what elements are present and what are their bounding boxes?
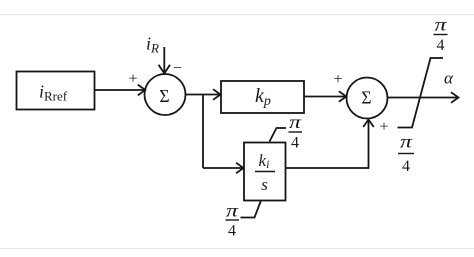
arrowhead into kp bbox=[213, 89, 221, 100]
svg-text:π: π bbox=[226, 201, 239, 221]
arrowhead into S1 bbox=[138, 85, 146, 96]
svg-text:Σ: Σ bbox=[361, 87, 371, 107]
wire kp to summer S2 bbox=[304, 96, 346, 98]
svg-text:+: + bbox=[128, 71, 137, 88]
saturation limiter bbox=[398, 58, 444, 128]
arrowhead of iR into S1 bbox=[159, 65, 170, 74]
svg-text:Σ: Σ bbox=[159, 86, 169, 106]
ki/s lower limit fraction bar bbox=[226, 219, 240, 221]
wire node A to kp bbox=[203, 94, 221, 96]
svg-text:−: − bbox=[173, 60, 182, 77]
svg-text:+: + bbox=[333, 71, 342, 88]
svg-text:4: 4 bbox=[291, 135, 299, 152]
svg-text:π: π bbox=[435, 15, 448, 35]
svg-text:4: 4 bbox=[402, 158, 410, 175]
arrowhead into S2 bbox=[339, 91, 347, 102]
input iR wire bbox=[163, 47, 165, 74]
bottom faint rule bbox=[0, 248, 474, 250]
svg-text:π: π bbox=[400, 132, 413, 152]
output wire to alpha bbox=[388, 97, 459, 99]
lower limit bar pi/4 bbox=[398, 153, 414, 155]
integrator block ki/s bbox=[244, 143, 286, 201]
arrowhead of alpha output bbox=[451, 92, 459, 103]
wire iRref to summer S1 bbox=[95, 89, 146, 91]
wire node A down bbox=[202, 95, 204, 169]
fraction bar of ki/s bbox=[255, 171, 275, 173]
ki/s lower limit slash bbox=[241, 201, 262, 218]
wire S1 to node A bbox=[186, 94, 204, 96]
svg-text:π: π bbox=[289, 112, 302, 132]
gain block kp bbox=[221, 81, 304, 113]
wire ki/s to summer S2 bbox=[286, 120, 369, 169]
block iRref bbox=[17, 72, 95, 110]
svg-text:4: 4 bbox=[437, 37, 445, 54]
top faint rule bbox=[0, 14, 474, 16]
ki/s upper limit slash bbox=[270, 128, 287, 142]
arrowhead into ki/s bbox=[236, 163, 244, 174]
summing junction S2 bbox=[347, 78, 388, 119]
wire node A to ki/s bbox=[203, 167, 244, 169]
svg-text:s: s bbox=[261, 175, 268, 194]
arrowhead into S2 bottom bbox=[363, 120, 374, 128]
svg-text:α: α bbox=[444, 69, 454, 88]
ki/s upper limit fraction bar bbox=[289, 131, 303, 133]
svg-text:4: 4 bbox=[228, 223, 236, 240]
svg-text:+: + bbox=[379, 119, 388, 136]
upper limit bar pi/4 bbox=[434, 34, 448, 36]
summing junction S1 bbox=[145, 74, 186, 115]
